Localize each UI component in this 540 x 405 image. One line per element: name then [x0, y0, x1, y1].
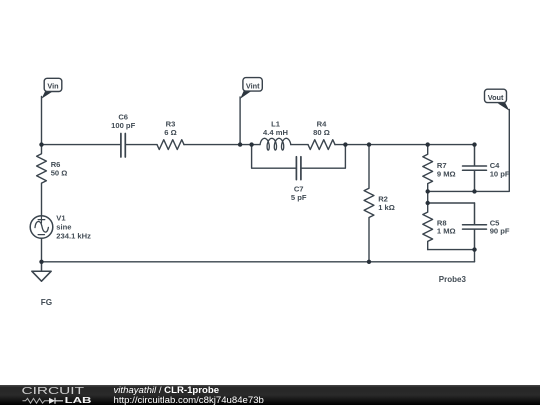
svg-text:9 MΩ: 9 MΩ [437, 170, 456, 179]
svg-text:Vout: Vout [488, 93, 504, 102]
wire Vint flag drop [239, 97, 241, 145]
wire C7 box left [252, 145, 297, 169]
svg-text:90 pF: 90 pF [490, 227, 510, 236]
wire R4 to C4 top corner [335, 144, 475, 146]
footer bar [0, 385, 540, 405]
wire V1 to ground rail [41, 238, 43, 261]
wire C7 box right [301, 145, 346, 169]
wire L1 to R4 [291, 144, 308, 146]
capacitor C6 [121, 134, 125, 158]
svg-text:50 Ω: 50 Ω [51, 169, 68, 178]
wire Vout node horizontal [428, 190, 475, 192]
voltage source V1 [30, 216, 53, 239]
wire connector Vout node to probe box [427, 191, 429, 203]
capacitor C5 [463, 203, 487, 250]
svg-text:4.4 mH: 4.4 mH [263, 128, 288, 137]
flag Vin [42, 78, 62, 98]
wire probe box top [428, 202, 475, 204]
svg-text:http://circuitlab.com/c8kj74u8: http://circuitlab.com/c8kj74u84e73b [114, 395, 264, 405]
resistor R2 [364, 145, 374, 262]
wire Vout flag drop [475, 110, 510, 192]
svg-text:LAB: LAB [65, 395, 92, 405]
svg-text:Vint: Vint [246, 81, 260, 90]
svg-text:Vin: Vin [47, 82, 58, 91]
junction dots [39, 142, 476, 264]
resistor R4 [308, 140, 335, 150]
svg-text:100 pF: 100 pF [111, 121, 135, 130]
svg-text:Probe3: Probe3 [439, 275, 467, 284]
resistor R3 [157, 140, 184, 150]
resistor R7 [423, 145, 433, 192]
logo diode symbol [49, 398, 55, 404]
svg-text:V1: V1 [56, 214, 66, 223]
svg-text:234.1 kHz: 234.1 kHz [56, 232, 91, 241]
wire probe box bottom [428, 249, 475, 251]
wire probe box stub to ground rail [474, 250, 476, 262]
svg-text:FG: FG [41, 298, 52, 307]
resistor R6 [37, 145, 47, 216]
svg-text:1 kΩ: 1 kΩ [378, 203, 395, 212]
resistor R8 [423, 203, 433, 250]
capacitor C7 [296, 157, 301, 180]
flag Vout [485, 89, 510, 111]
svg-text:5 pF: 5 pF [291, 193, 307, 202]
wire R3 to L1 [184, 144, 260, 146]
wire main horizontal Vin to C6 [42, 144, 121, 146]
wire Vin flag drop [41, 97, 43, 145]
ground rail [42, 261, 475, 263]
svg-text:1 MΩ: 1 MΩ [437, 227, 456, 236]
capacitor C4 [463, 145, 487, 192]
svg-text:sine: sine [56, 222, 71, 231]
inductor L1 [260, 138, 291, 150]
svg-text:80 Ω: 80 Ω [313, 128, 330, 137]
ground FG symbol [32, 262, 51, 281]
svg-text:6 Ω: 6 Ω [164, 128, 176, 137]
wire C6 to R3 [126, 144, 157, 146]
flag Vint [240, 78, 262, 99]
svg-text:10 pF: 10 pF [490, 170, 510, 179]
logo resistor zigzag [23, 398, 50, 403]
